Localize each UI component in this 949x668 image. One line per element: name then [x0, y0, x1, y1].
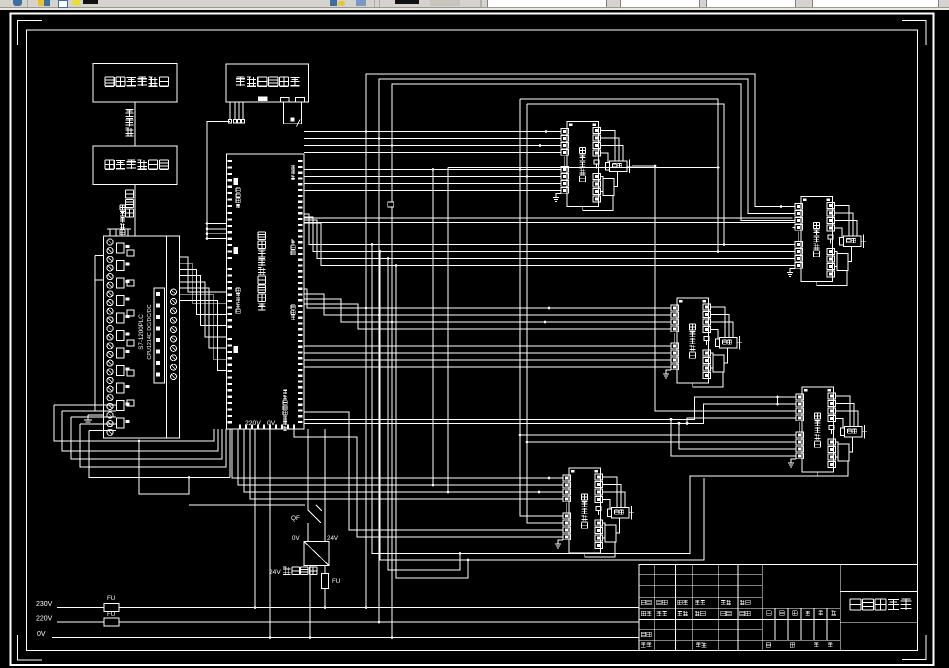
- title block middle cells: [762, 607, 840, 609]
- PLC left stub wires: [54, 404, 116, 406]
- ground symbol at PLC left: [88, 414, 104, 416]
- trunk wire to 220V bus: [378, 139, 380, 623]
- svg-text:QF: QF: [291, 515, 300, 522]
- elbow wires controller to cluster C top: [304, 289, 669, 308]
- auxiliary jog wire lower-left: [139, 441, 189, 494]
- PSU 24V switching power supply box: [304, 542, 329, 566]
- fuse FU on 230V bus: [104, 604, 119, 612]
- top bus rectangle wire 2: [379, 79, 793, 214]
- svg-text:FU: FU: [332, 578, 340, 585]
- power rail vertical x527: [527, 104, 561, 523]
- component on trunk wire: [388, 202, 394, 207]
- title block left grid: [654, 565, 656, 651]
- label comm line (vertical): [126, 190, 134, 198]
- wire motor A output to cluster D top 3: [632, 166, 794, 411]
- camera right loop with component: [284, 102, 302, 124]
- return bus below cluster E wire 1: [372, 245, 818, 554]
- controller left edge pins: [228, 160, 233, 162]
- trunk wire to 230V bus: [365, 132, 367, 608]
- svg-text:0V: 0V: [37, 631, 46, 638]
- top bus rectangle wire 3: [392, 84, 793, 221]
- motor driver module D (right): [788, 387, 867, 476]
- camera bottom notch: [258, 97, 268, 102]
- bus 220V: [57, 621, 639, 623]
- elbow wires controller to cluster B bottom: [304, 214, 793, 245]
- fuse FU below PSU: [324, 566, 326, 608]
- svg-text:24V: 24V: [327, 535, 339, 542]
- staircase wires controller to cluster E bottom 3-4: [304, 412, 561, 530]
- title block row labels: [641, 600, 646, 605]
- fuse FU on 220V bus: [104, 618, 119, 626]
- title block middle small labels: [767, 611, 772, 616]
- motor driver module B (top-right): [787, 197, 866, 286]
- svg-text:S7-1200PLC: S7-1200PLC: [138, 314, 145, 350]
- PLC right terminal circles: [171, 289, 177, 295]
- inner top loop wire 2: [527, 104, 724, 245]
- svg-text:220V: 220V: [36, 616, 53, 623]
- box client computer: [93, 64, 177, 103]
- PSU 0V wire to 0V bus: [309, 566, 311, 638]
- wires controller to cluster A top: [304, 131, 559, 133]
- toolbar strip: [0, 0, 949, 10]
- trunk wire to 0V bus: [391, 146, 393, 638]
- svg-text:FU: FU: [107, 595, 115, 602]
- link wire server-PLC: [134, 185, 136, 237]
- camera pin stubs: [229, 102, 231, 120]
- bus 230V: [57, 607, 639, 609]
- bus 0V: [52, 637, 639, 639]
- power rail vertical x520: [520, 99, 561, 516]
- controller right edge pins: [298, 160, 303, 162]
- corner mark bottom-right: [902, 635, 926, 660]
- camera connector J2: [296, 98, 305, 103]
- motor driver module E (bottom-center): [555, 468, 634, 557]
- tie wire between D rails: [777, 397, 779, 404]
- box server computer: [93, 146, 177, 185]
- controller 0V pin wire to bus: [269, 429, 271, 638]
- PLC top power pins: [109, 229, 111, 236]
- wires controller to cluster A bottom: [304, 169, 559, 171]
- PLC terminal block rects: [117, 243, 125, 253]
- controller vertical title text: [258, 232, 266, 240]
- camera connector J1: [281, 98, 290, 103]
- drawing title text (circuit schematic): [850, 599, 861, 610]
- PLC internal divider: [166, 236, 168, 438]
- 24V riser from PSU: [324, 429, 326, 542]
- PLC wrap wire 5 joining cluster E feed: [89, 431, 230, 478]
- title block middle divider: [839, 565, 841, 651]
- PLC inner sub-box: [154, 288, 165, 383]
- top bus rectangle wire 1: [366, 74, 793, 207]
- camera wire to controller: [207, 121, 230, 238]
- toolbar dropdown boxes: [487, 0, 607, 7]
- controller 220V pin wire to bus: [254, 429, 256, 608]
- svg-text:24V: 24V: [269, 569, 281, 576]
- controller left marker squares: [234, 178, 239, 185]
- riser wires to cluster E top: [232, 429, 561, 478]
- hanging verticals to cluster E feed lines: [432, 170, 434, 486]
- wires controller to cluster C bottom: [304, 345, 669, 347]
- hanging verticals to lower return bus: [388, 259, 460, 571]
- corner mark bottom-left: [18, 635, 43, 660]
- svg-text:0V: 0V: [292, 535, 300, 542]
- motor driver module C (middle-right): [663, 298, 742, 387]
- inner top loop wire 1: [520, 99, 718, 252]
- controller left pin group labels: [236, 188, 240, 192]
- PLC wrap-around wires to controller bottom: [54, 405, 214, 441]
- controller bottom pins: [239, 425, 241, 429]
- toolbar icon fragments: [13, 0, 22, 6]
- PLC top pin labels (vertical): [120, 205, 125, 210]
- motor driver module A (top-center): [553, 122, 632, 211]
- wire QF to PSU: [307, 429, 309, 497]
- svg-text:CPU1214C DC/DC/DC: CPU1214C DC/DC/DC: [147, 304, 153, 359]
- PLC left tap vertical: [94, 256, 96, 412]
- PLC S7-1200 box: [104, 236, 180, 438]
- PLC terminal screws left column: [107, 239, 113, 245]
- controller power supply label: [283, 390, 287, 394]
- label ethernet (vertical): [126, 109, 134, 116]
- PLC inner symbols column: [127, 250, 134, 256]
- corner mark top-right: [902, 21, 926, 46]
- title block bottom stage labels: [766, 643, 771, 648]
- svg-text:0V: 0V: [267, 420, 276, 427]
- box industrial camera module: [226, 64, 309, 102]
- drops to cluster D bottom 3-4: [679, 423, 794, 449]
- title block outer: [639, 565, 917, 651]
- rail wire y167 to x718: [448, 167, 718, 169]
- corner mark top-left: [18, 21, 43, 46]
- link wire client-server: [134, 102, 136, 146]
- wires controller to cluster B top 4: [304, 217, 793, 219]
- wire feeding breaker QF: [189, 504, 305, 506]
- PLC staircase wires to controller: [180, 257, 227, 292]
- title block lower-left labels: [641, 632, 646, 637]
- junction dots: [365, 130, 368, 133]
- camera wire fan-out stubs: [207, 223, 227, 225]
- taps to cluster D bottom 1-2: [520, 434, 794, 436]
- controller right pin labels: [291, 165, 295, 169]
- return bus below cluster E wire 2: [380, 252, 704, 561]
- main controller box: [227, 154, 305, 429]
- riser to cluster D top 4: [687, 418, 794, 423]
- svg-text:230V: 230V: [36, 601, 53, 608]
- svg-text:FU: FU: [107, 611, 115, 618]
- rail wires controller to cluster D top 1-2: [304, 397, 794, 419]
- title block right cells: [840, 591, 917, 593]
